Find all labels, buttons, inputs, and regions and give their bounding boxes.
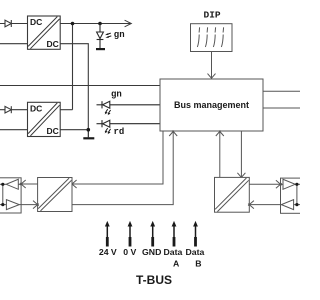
svg-text:GND: GND <box>142 247 161 257</box>
wire DIP to bus management <box>211 52 213 78</box>
T-BUS pin arrow Data B <box>193 221 198 247</box>
svg-text:B: B <box>195 258 201 268</box>
node dot in right transceiver bottom <box>295 203 298 206</box>
arrow into right transceiver <box>276 180 282 188</box>
left isolator box <box>38 178 72 212</box>
svg-text:gn: gn <box>114 30 125 40</box>
wire left isolator to bus (rx) <box>72 131 173 204</box>
LED gn vertical <box>97 24 104 49</box>
wire bus management output right 2 <box>263 107 300 109</box>
arrow into right isolator bottom <box>248 201 254 209</box>
DIP switch box <box>191 24 233 52</box>
svg-text:rd: rd <box>114 127 125 137</box>
svg-text:24 V: 24 V <box>99 247 117 257</box>
wire DC/DC1 output minus <box>60 44 88 130</box>
arrow into bus bottom right <box>216 131 224 137</box>
LED gn horizontal emission arrows <box>105 109 111 114</box>
node junction dot A <box>71 22 75 26</box>
left transceiver box <box>0 178 21 213</box>
svg-text:Bus management: Bus management <box>174 100 249 110</box>
wire long rail to bus management <box>0 85 160 87</box>
wire DC/DC2 output minus <box>60 129 88 131</box>
dip switch lever 4 <box>221 27 223 47</box>
T-BUS pin arrow 24V <box>105 221 110 247</box>
node junction dot C <box>87 128 91 132</box>
receiver triangle (points left) <box>281 200 293 210</box>
svg-text:Data: Data <box>163 247 182 257</box>
wire right isolator to transceiver (top) <box>249 183 280 185</box>
wire bus management output right 1 <box>263 90 300 92</box>
right transceiver box <box>281 178 307 213</box>
svg-text:gn: gn <box>111 89 122 99</box>
receiver triangle (points right) <box>6 200 19 210</box>
diode D2 <box>5 106 11 113</box>
svg-text:DC: DC <box>47 39 59 49</box>
arrow into left isolator bottom <box>33 201 39 209</box>
dip switch lever 3 <box>213 27 215 47</box>
DC/DC converter 2 <box>28 102 61 136</box>
wire DC/DC2 output plus <box>60 109 72 111</box>
arrow right end of supply line <box>125 20 132 27</box>
svg-text:DC: DC <box>30 17 42 27</box>
wire bus to right isolator (tx) <box>240 131 242 177</box>
LED gn horizontal <box>97 101 161 108</box>
DC/DC converter 1 <box>28 16 61 49</box>
T-BUS pin arrow 0V <box>128 221 133 247</box>
svg-text:T-BUS: T-BUS <box>136 273 172 287</box>
node dot in left transceiver top <box>1 183 4 186</box>
arrow into bus management top <box>208 74 216 79</box>
svg-text:DC: DC <box>30 104 42 114</box>
driver triangle (points right) <box>283 179 295 189</box>
node dot in left transceiver bottom <box>1 203 4 206</box>
arrow into left isolator <box>71 180 77 188</box>
svg-text:A: A <box>173 258 180 268</box>
wire input top to DC/DC 2 <box>0 109 28 111</box>
svg-text:DIP: DIP <box>204 10 221 21</box>
wire input bottom to DC/DC 1 <box>0 43 28 45</box>
wire tie verticals outputs <box>72 24 74 110</box>
wire left isolator to transceiver (top) <box>21 183 37 185</box>
wire left transceiver to isolator (bottom) <box>21 204 37 206</box>
node dot in right transceiver top <box>295 183 298 186</box>
T-BUS pin arrow Data A <box>172 221 177 247</box>
node junction dot B <box>98 22 102 26</box>
wire input bottom to DC/DC 2 <box>0 129 28 131</box>
arrow into right isolator top <box>237 173 245 179</box>
bus management box <box>160 79 263 131</box>
svg-text:DC: DC <box>47 126 59 136</box>
wire right isolator to bus (rx) <box>219 131 221 177</box>
arrow into left transceiver <box>20 180 26 188</box>
ground bar under node C <box>83 130 94 139</box>
wire right transceiver to isolator (bottom) <box>249 204 280 206</box>
driver triangle (points left) <box>6 179 18 189</box>
right isolator box <box>215 177 250 212</box>
svg-text:0 V: 0 V <box>123 247 136 257</box>
dip switch lever 1 <box>197 27 199 47</box>
LED gn vertical emission arrows <box>107 33 112 37</box>
LED rd horizontal emission arrows <box>105 128 111 133</box>
dip switch lever 2 <box>205 27 207 47</box>
ground bar under LED gn <box>96 48 105 50</box>
diode D1 <box>5 20 11 27</box>
wire DC/DC1 output plus <box>60 23 131 25</box>
svg-text:Data: Data <box>185 247 204 257</box>
LED rd horizontal <box>97 120 161 127</box>
arrow into bus bottom left <box>169 131 177 137</box>
wire bus to left isolator (tx) <box>72 131 163 184</box>
wire input top to DC/DC 1 <box>0 23 28 25</box>
T-BUS pin arrow GND <box>150 221 155 247</box>
